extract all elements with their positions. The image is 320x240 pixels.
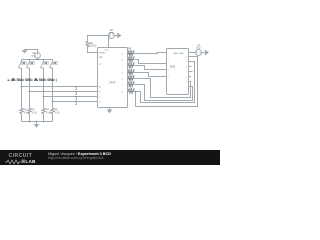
svg-text:D: D: [99, 102, 101, 104]
svg-text:10: 10: [185, 56, 187, 58]
voltage source V1: [35, 53, 41, 59]
svg-text:5 V: 5 V: [31, 54, 35, 58]
svg-text:5 V: 5 V: [109, 31, 113, 35]
7-segment display DIS1: [167, 49, 189, 95]
svg-text:}: }: [56, 78, 58, 82]
switch name labels row: [8, 78, 58, 82]
resistor R2: [20, 108, 23, 113]
svg-text:5: 5: [186, 81, 187, 83]
wire V1 bottom to bus: [37, 58, 39, 59]
wire display anode to V3: [189, 52, 196, 54]
svg-text:d: d: [122, 73, 124, 75]
wire R5 to bottom bus: [52, 114, 54, 122]
svg-text:f: f: [122, 85, 123, 87]
svg-text:DIS1: DIS1: [170, 64, 176, 68]
svg-text:220 Ω: 220 Ω: [128, 62, 135, 65]
svg-text:SW3≡: SW3≡: [39, 78, 47, 82]
svg-text:SW1≡: SW1≡: [17, 78, 25, 82]
wire SW4 column to R5: [52, 102, 54, 109]
ground GND5 (right of V3, pointing right): [205, 50, 209, 55]
wire R2 to bottom bus: [21, 114, 23, 122]
svg-text:a: a: [122, 54, 124, 56]
svg-text:220 Ω: 220 Ω: [128, 81, 135, 84]
voltage source V2: [109, 33, 115, 39]
CircuitLab logo text: [9, 153, 33, 159]
wire segment f loop under display: [135, 85, 193, 101]
svg-text:1 kΩ: 1 kΩ: [32, 111, 37, 114]
label DIS1 pin numbers: [168, 56, 188, 83]
wire SW1 column to R2: [21, 87, 23, 109]
node V2 left junction: [108, 35, 110, 37]
switch SW1: [19, 60, 27, 87]
svg-text:e: e: [122, 79, 124, 81]
svg-text:A: A: [99, 86, 101, 89]
label R5 value: [55, 109, 60, 115]
switch SW4: [50, 60, 58, 102]
resistor R1: [86, 42, 89, 48]
node bus-V1 junction: [37, 59, 39, 61]
wire tap SW1 to U1 pin (net A): [22, 86, 98, 88]
svg-text:B: B: [99, 92, 101, 94]
svg-text:5 V: 5 V: [197, 46, 201, 50]
node bus junction col3: [43, 59, 45, 61]
footer url text: [48, 156, 103, 160]
svg-text:9: 9: [186, 61, 187, 63]
pin stubs display right edge: [189, 67, 193, 77]
svg-text:LT: LT: [99, 64, 102, 66]
voltage source V3: [196, 50, 202, 56]
switch SW3: [41, 60, 49, 97]
wire R3 to bottom bus: [29, 114, 31, 122]
wire R1 bottom to U1 left pin 1: [88, 48, 98, 53]
wire SW2 column to R3: [29, 92, 31, 109]
svg-text:7: 7: [186, 71, 187, 73]
svg-text:ANO ANO: ANO ANO: [174, 52, 185, 55]
wire V2 left to R1 top: [88, 36, 109, 42]
wire top bus: [22, 59, 53, 61]
ground GND2 (bottom center): [34, 122, 39, 128]
resistor R13 (segment e): [128, 77, 135, 81]
svg-text:b: b: [122, 60, 124, 62]
wire V1 top to ground: [25, 50, 38, 53]
wire V2 junction down to U1 VCC: [108, 36, 110, 48]
resistor R4: [42, 108, 45, 113]
footer title text: [48, 152, 111, 156]
node bottom bus junction col2: [29, 121, 31, 123]
logo LAB text: [26, 159, 36, 164]
node segment g / outer loop junction: [135, 91, 137, 93]
label V2 value: [109, 28, 113, 35]
wire SW3 column to R4: [43, 97, 45, 109]
label R2 value: [24, 109, 29, 115]
svg-text:4: 4: [168, 76, 169, 78]
wire segment b to display pin 2 (jog): [135, 60, 167, 64]
wire bottom bus: [22, 121, 53, 123]
svg-text:220 Ω: 220 Ω: [128, 88, 135, 91]
wire tap SW4 to U1 pin (net D): [53, 101, 98, 103]
svg-text:10 kΩ: 10 kΩ: [90, 45, 97, 48]
wire V3 right to ground: [202, 52, 205, 54]
resistor R12 (segment d): [128, 71, 135, 75]
label R3 value: [32, 109, 37, 115]
node bottom bus junction col3: [43, 121, 45, 123]
svg-text:3: 3: [168, 69, 169, 71]
svg-text:6: 6: [186, 76, 187, 78]
wire tap SW3 to U1 pin (net C): [44, 96, 98, 98]
wire outer loop to display pin (DP): [136, 57, 198, 107]
resistor R5: [51, 108, 54, 113]
wire V2 right to ground: [115, 35, 118, 37]
node bus-ground junction: [36, 121, 38, 123]
resistor R9 (segment a): [128, 52, 135, 56]
op-amp U1 (BCD decoder 7447 box): [98, 48, 128, 108]
label V1 value: [31, 51, 35, 58]
svg-text:BI/RBO: BI/RBO: [99, 52, 106, 54]
resistor R10 (segment b): [128, 58, 135, 62]
svg-text:c: c: [122, 66, 124, 68]
wire segment d to display pin 4 (jog): [135, 73, 167, 77]
ground GND1 (left of V1, pointing left): [22, 50, 27, 54]
label V3 value: [197, 43, 201, 50]
svg-text:SW2≡: SW2≡: [25, 78, 33, 82]
svg-text:ʒ: ʒ: [75, 100, 78, 105]
wire segment a to display pin 1 (jog): [135, 53, 167, 54]
U1 internal pin labels: [99, 50, 124, 104]
switch SW2: [27, 60, 35, 92]
footer bar: [0, 150, 220, 165]
wire tap SW2 to U1 pin (net B): [30, 91, 98, 93]
svg-text:g: g: [122, 92, 124, 94]
label R1 value: [90, 42, 97, 48]
ground GND3 (right of V2, pointing right): [118, 33, 122, 38]
wire segment c to display pin 3 (jog): [135, 66, 167, 70]
svg-text:RBI: RBI: [99, 57, 103, 59]
svg-text:1: 1: [168, 57, 169, 59]
label R4 value: [46, 109, 51, 115]
resistor R11 (segment c): [128, 64, 135, 68]
logo resistor zigzag: [4, 158, 44, 166]
resistor R3: [28, 108, 31, 113]
resistor R14 (segment f): [128, 83, 135, 87]
wire segment g loop under display: [135, 62, 195, 103]
ground GND4 (below U1): [107, 108, 112, 114]
svg-text:8: 8: [186, 66, 187, 68]
wire R4 to bottom bus: [43, 114, 45, 122]
svg-text:1 kΩ: 1 kΩ: [55, 111, 60, 114]
svg-text:VCC: VCC: [105, 50, 110, 52]
wire segment e loop under display: [135, 79, 191, 98]
svg-text:2: 2: [168, 63, 169, 65]
svg-text:SW4≡: SW4≡: [47, 78, 55, 82]
resistor R15 (segment g): [128, 90, 135, 94]
svg-text:C: C: [99, 97, 101, 99]
svg-text:7447: 7447: [109, 81, 116, 85]
node bus junction col2: [29, 59, 31, 61]
